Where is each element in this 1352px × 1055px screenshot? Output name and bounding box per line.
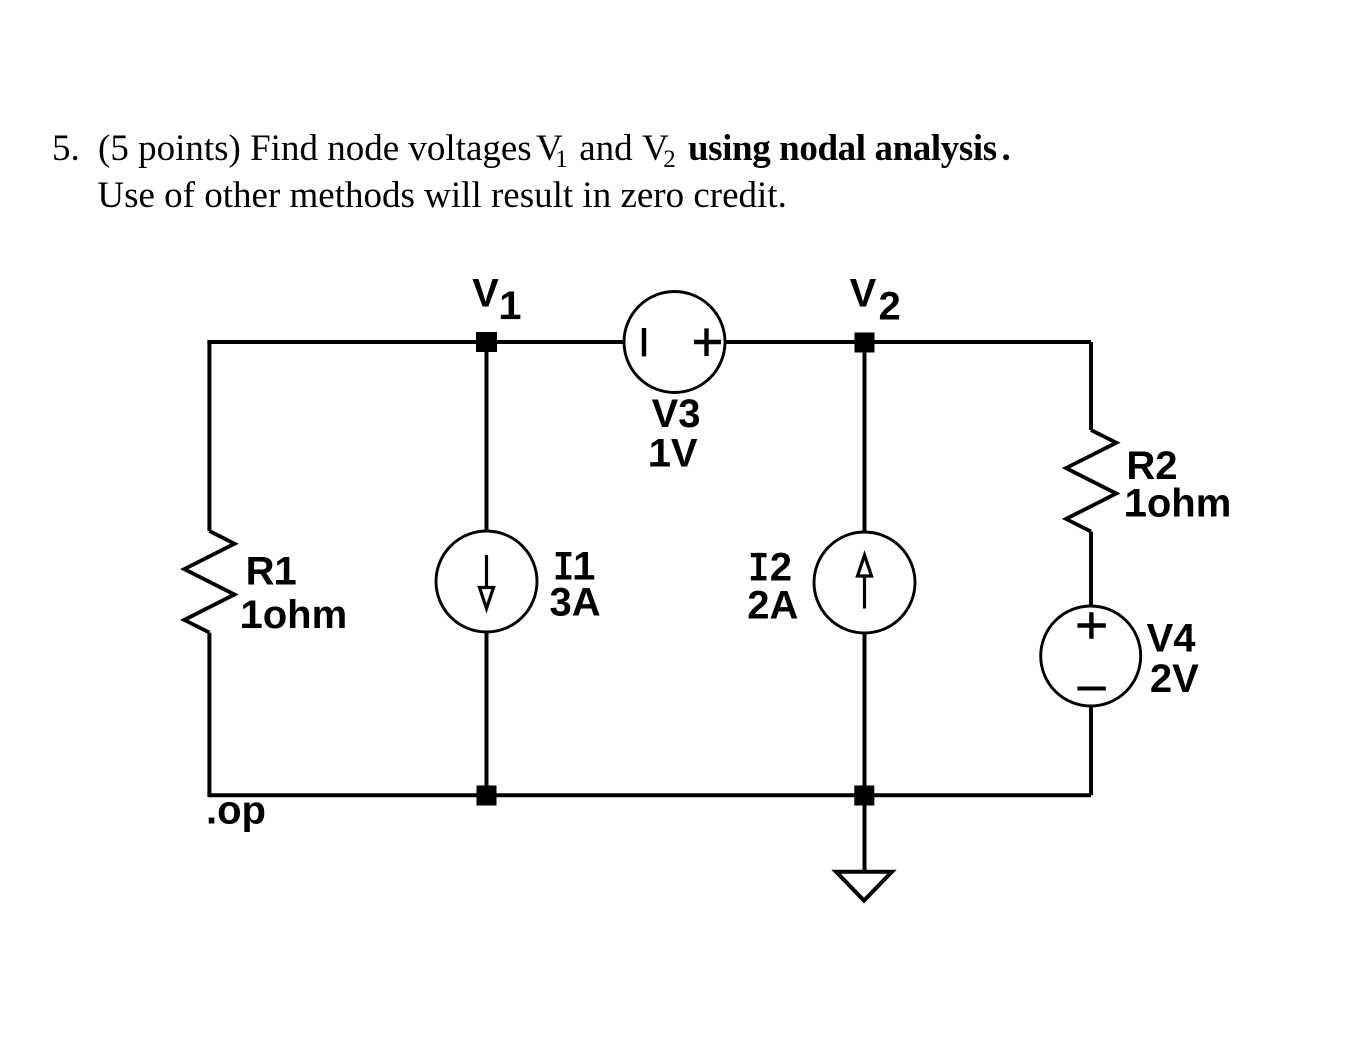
wire V1 stem [485,342,489,795]
V3 minus mark [642,328,646,356]
wire right rail middle [1089,532,1093,607]
svg-text:2V: 2V [1150,657,1199,701]
wire top rail [207,340,1091,344]
node V1 junction square [476,332,497,352]
svg-text:1ohm: 1ohm [1125,481,1232,525]
ground [836,872,892,901]
label I2 glyph I [751,553,767,581]
bottom junction square right [854,786,874,806]
V3 plus mark [694,328,721,356]
wire V2 stem [863,342,867,795]
node V2 junction square [855,333,875,353]
V4 minus mark [1077,687,1105,691]
label R1 serif bar [276,580,295,584]
label I1 digit serif bar [575,575,594,579]
wire right rail upper [1089,342,1093,430]
wire left rail lower [207,633,211,796]
svg-text:1V: 1V [649,432,698,476]
svg-text:1ohm: 1ohm [241,593,348,637]
resistor R1 [184,531,234,633]
label 1ohm (R2) serif bar [1126,512,1145,516]
I1 arrow [480,555,494,609]
svg-text:2: 2 [879,285,901,329]
problem statement line 1 [52,130,80,167]
resistor R2 [1066,430,1116,532]
svg-text:2A: 2A [747,583,798,627]
wire bottom rail [207,793,1091,797]
V4 plus mark [1077,612,1105,638]
problem statement line 2 [97,177,786,214]
svg-text:1: 1 [499,284,521,328]
wire left rail upper [207,340,211,531]
current source I1 [436,531,537,632]
I2 arrow [858,555,872,608]
svg-text:V: V [472,272,499,316]
wire ground stem [863,795,867,871]
svg-text:R1: R1 [246,549,297,593]
svg-text:V: V [850,272,877,316]
label 1V serif bar [650,462,669,466]
voltage source V3 [624,292,725,393]
wire right rail lower [1089,707,1093,796]
node V1 subscript serif bar [501,315,520,319]
label 1ohm (R1) serif bar [242,624,261,628]
voltage source V4 [1041,606,1141,706]
bottom junction square left [477,786,497,806]
svg-text:3A: 3A [550,580,601,624]
svg-text:V4: V4 [1147,617,1197,661]
current source I2 [814,532,915,633]
svg-text:V3: V3 [652,392,701,436]
svg-text:.op: .op [206,789,266,833]
label I1 glyph I [556,552,572,580]
